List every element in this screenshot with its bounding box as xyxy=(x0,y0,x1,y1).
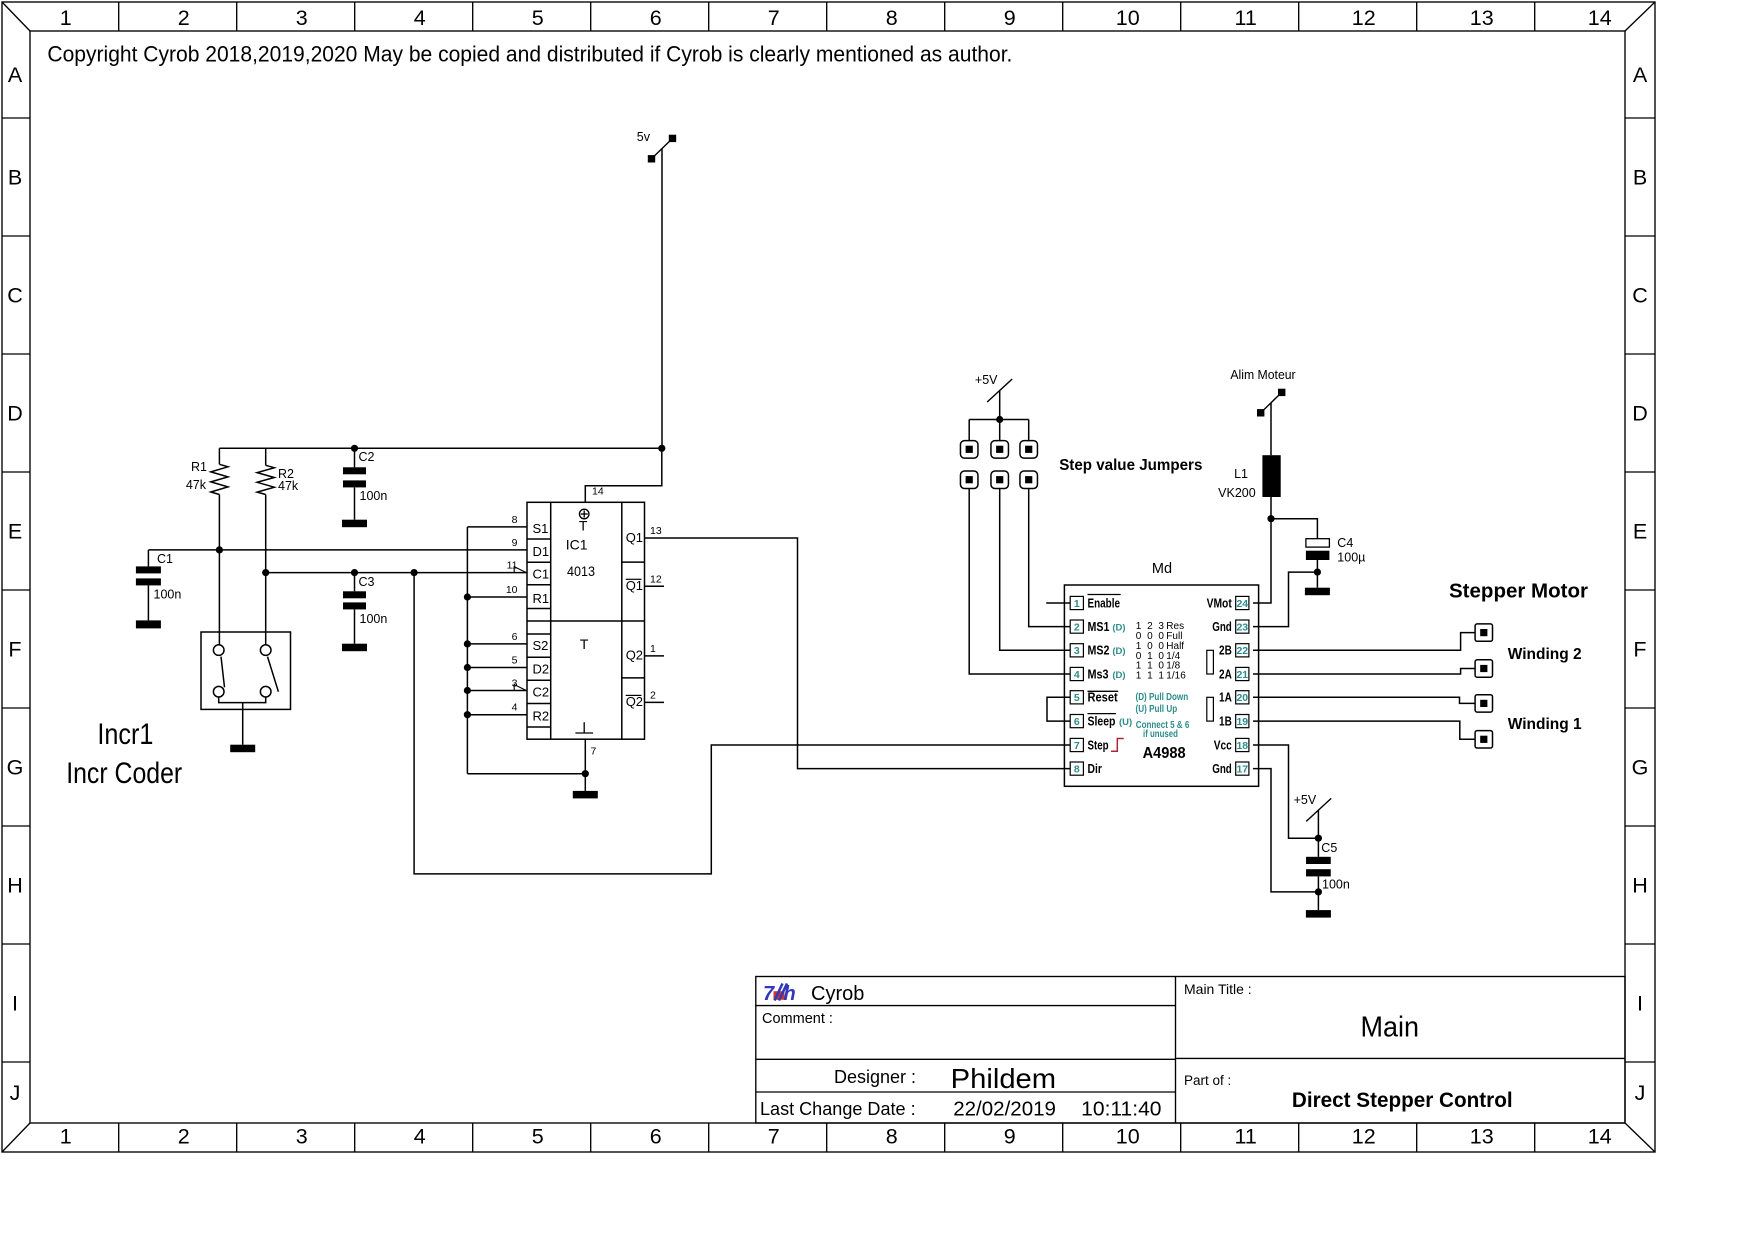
svg-text:C4: C4 xyxy=(1337,536,1353,550)
node C5-gnd junction xyxy=(1315,888,1322,895)
capacitor C4 100u polarized xyxy=(1306,536,1365,588)
A4988 right pin boxes xyxy=(1236,596,1249,775)
svg-text:3: 3 xyxy=(296,6,308,30)
svg-text:4: 4 xyxy=(1074,669,1080,681)
svg-text:5v: 5v xyxy=(637,130,651,144)
svg-text:C1: C1 xyxy=(157,552,173,566)
ground C3 xyxy=(342,644,367,652)
wire Q1 to Dir xyxy=(645,538,1071,769)
svg-text:Md: Md xyxy=(1152,561,1172,577)
svg-text:Incr Coder: Incr Coder xyxy=(66,757,182,790)
svg-text:Winding 2: Winding 2 xyxy=(1508,646,1582,663)
svg-text:Step: Step xyxy=(1088,738,1109,752)
svg-text:Stepper Motor: Stepper Motor xyxy=(1449,581,1588,603)
svg-text:Sleep: Sleep xyxy=(1088,714,1116,728)
svg-text:Incr1: Incr1 xyxy=(97,718,153,751)
wire clock net xyxy=(266,572,527,574)
svg-text:23: 23 xyxy=(1236,621,1248,633)
svg-text:6: 6 xyxy=(650,1125,662,1149)
svg-text:7: 7 xyxy=(1074,740,1080,752)
svg-text:1: 1 xyxy=(1136,670,1142,681)
svg-text:2: 2 xyxy=(178,6,190,30)
wire VMot pin 24 xyxy=(1253,519,1271,603)
svg-text:B: B xyxy=(8,166,22,190)
svg-text:Comment :: Comment : xyxy=(762,1011,833,1027)
svg-text:L1: L1 xyxy=(1234,467,1248,481)
svg-text:Vcc: Vcc xyxy=(1214,738,1232,752)
A4988 pin names xyxy=(1088,595,1233,776)
svg-text:4: 4 xyxy=(512,702,518,714)
winding bracket 1 xyxy=(1207,697,1214,721)
step edge symbol xyxy=(1111,739,1124,752)
svg-text:20: 20 xyxy=(1236,692,1248,704)
svg-text:VMot: VMot xyxy=(1207,596,1233,610)
svg-text:Q2: Q2 xyxy=(626,694,643,709)
svg-text:R2: R2 xyxy=(533,709,550,724)
svg-text:1/16: 1/16 xyxy=(1166,670,1186,681)
wire IC1 pin 12 stub xyxy=(645,585,665,587)
node clk-step branch junction xyxy=(411,569,418,576)
svg-text:11: 11 xyxy=(1235,6,1257,30)
svg-text:I: I xyxy=(1637,992,1643,1016)
svg-text:S2: S2 xyxy=(533,638,549,653)
node vcc-C2 junction xyxy=(351,445,358,452)
capacitor C1 100n xyxy=(136,550,181,621)
svg-text:21: 21 xyxy=(1236,669,1248,681)
motor pad 3 xyxy=(1475,695,1492,712)
svg-text:Reset: Reset xyxy=(1088,691,1119,705)
svg-text:1: 1 xyxy=(60,1125,72,1149)
svg-text:Dir: Dir xyxy=(1088,762,1103,776)
svg-text:24: 24 xyxy=(1236,598,1248,610)
node clk-C3 junction xyxy=(351,569,358,576)
svg-text:Phildem: Phildem xyxy=(951,1063,1056,1094)
wire IC1 pin 2 stub xyxy=(645,701,665,703)
ground C5 xyxy=(1306,910,1331,918)
svg-text:J: J xyxy=(10,1081,21,1105)
svg-text:J: J xyxy=(1635,1081,1646,1105)
wire 1B to pad xyxy=(1253,721,1475,739)
svg-text:2: 2 xyxy=(178,1125,190,1149)
svg-text:7: 7 xyxy=(591,746,597,758)
power flag Alim Moteur xyxy=(1230,368,1295,417)
wire 1A to pad xyxy=(1253,697,1475,703)
svg-text:(U) Pull Up: (U) Pull Up xyxy=(1136,704,1178,715)
svg-text:100n: 100n xyxy=(154,588,182,602)
svg-text:1: 1 xyxy=(650,643,656,655)
svg-text:11: 11 xyxy=(507,560,518,572)
node D1-R1 junction xyxy=(216,546,223,553)
svg-text:5: 5 xyxy=(532,6,544,30)
svg-text:C2: C2 xyxy=(359,450,375,464)
capacitor C2 100n xyxy=(343,448,387,519)
svg-text:Designer :: Designer : xyxy=(834,1067,916,1087)
logo Cyrob xyxy=(763,983,796,1005)
wire 5v vertical xyxy=(661,149,663,449)
wire 2B to pad xyxy=(1253,633,1475,651)
svg-text:(D): (D) xyxy=(1112,622,1125,633)
svg-text:7: 7 xyxy=(768,6,780,30)
clock chevron pin 11 xyxy=(514,567,526,573)
wire +5V to jumpers xyxy=(969,391,1028,441)
jumper pad top 1 xyxy=(960,441,978,459)
svg-text:I: I xyxy=(12,992,18,1016)
svg-text:18: 18 xyxy=(1236,740,1248,752)
svg-text:12: 12 xyxy=(1352,6,1376,30)
svg-text:4: 4 xyxy=(414,1125,426,1149)
wire Enable stub xyxy=(1046,602,1070,604)
svg-text:S1: S1 xyxy=(533,521,549,536)
jumper pad bottom 2 xyxy=(991,471,1009,489)
node +5V junction xyxy=(996,416,1003,423)
wire jumper3 to MS1 xyxy=(1029,489,1070,627)
svg-text:1A: 1A xyxy=(1219,691,1232,705)
svg-text:13: 13 xyxy=(1470,6,1494,30)
svg-text:Main Title :: Main Title : xyxy=(1184,981,1252,997)
motor pad 4 xyxy=(1475,731,1492,748)
svg-text:13: 13 xyxy=(1470,1125,1494,1149)
wire node to C4 xyxy=(1271,519,1317,539)
svg-text:G: G xyxy=(7,756,24,780)
ground C1 xyxy=(136,620,161,628)
resistor R1 47k xyxy=(186,448,228,645)
svg-text:10: 10 xyxy=(1116,1125,1140,1149)
jumper pad bottom 1 xyxy=(960,471,978,489)
svg-text:F: F xyxy=(8,638,21,662)
node vcc-pin14 junction xyxy=(658,445,665,452)
node VMot junction xyxy=(1267,515,1274,522)
svg-text:13: 13 xyxy=(650,525,662,537)
node bus junction xyxy=(464,664,471,671)
svg-text:19: 19 xyxy=(1236,716,1248,728)
svg-text:12: 12 xyxy=(1352,1125,1376,1149)
wire IC1 pin 1 stub xyxy=(645,655,665,657)
svg-text:100n: 100n xyxy=(1322,878,1350,892)
svg-text:Last Change Date :: Last Change Date : xyxy=(760,1099,916,1119)
wire Gnd pin 17 xyxy=(1253,769,1318,892)
power flag +5V C5 xyxy=(1294,793,1332,821)
encoder switch Incr1 xyxy=(201,632,291,745)
svg-text:6: 6 xyxy=(1074,716,1080,728)
svg-text:C: C xyxy=(1632,284,1648,308)
svg-text:9: 9 xyxy=(1004,1125,1016,1149)
svg-text:(U): (U) xyxy=(1119,717,1132,728)
svg-text:D2: D2 xyxy=(533,662,550,677)
wire D1 net xyxy=(148,549,527,551)
svg-text:H: H xyxy=(7,874,23,898)
power flag 5v xyxy=(637,130,676,163)
motor pad 2 xyxy=(1475,660,1492,677)
svg-text:Part of :: Part of : xyxy=(1184,1073,1231,1088)
svg-text:C3: C3 xyxy=(359,575,375,589)
svg-text:8: 8 xyxy=(886,1125,898,1149)
svg-text:MS2: MS2 xyxy=(1088,644,1110,658)
svg-text:E: E xyxy=(1633,520,1647,544)
node Vcc-C5 junction xyxy=(1315,835,1322,842)
IC1 pin numbers xyxy=(506,486,662,758)
svg-text:5: 5 xyxy=(532,1125,544,1149)
A4988 left pin boxes xyxy=(1070,596,1083,775)
wire +5V to C5 xyxy=(1317,810,1319,838)
svg-text:h: h xyxy=(784,983,796,1005)
wire Vcc pin 18 xyxy=(1253,745,1318,838)
svg-text:Direct Stepper Control: Direct Stepper Control xyxy=(1292,1089,1513,1112)
node clk-R2 junction xyxy=(262,569,269,576)
wire Reset-Sleep tie xyxy=(1047,697,1070,721)
svg-text:8: 8 xyxy=(886,6,898,30)
svg-text:A4988: A4988 xyxy=(1143,745,1186,762)
wire 2A to pad xyxy=(1253,669,1475,675)
svg-text:2: 2 xyxy=(1074,621,1080,633)
svg-text:4: 4 xyxy=(414,6,426,30)
svg-text:22/02/2019: 22/02/2019 xyxy=(953,1098,1056,1121)
svg-text:4013: 4013 xyxy=(567,563,595,579)
svg-text:C: C xyxy=(7,284,23,308)
svg-text:10: 10 xyxy=(1116,6,1140,30)
title block xyxy=(756,977,1625,1124)
svg-text:Gnd: Gnd xyxy=(1212,620,1232,634)
svg-text:if unused: if unused xyxy=(1143,729,1178,740)
wire Alim to L1 xyxy=(1270,403,1272,456)
wire L1 to VMot node xyxy=(1270,497,1272,519)
svg-text:C2: C2 xyxy=(533,685,550,700)
svg-text:2B: 2B xyxy=(1219,644,1232,658)
ground C4 xyxy=(1305,588,1330,596)
svg-text:Enable: Enable xyxy=(1088,596,1121,610)
svg-text:1B: 1B xyxy=(1219,714,1232,728)
svg-text:Winding 1: Winding 1 xyxy=(1508,716,1582,733)
winding bracket 2 xyxy=(1207,650,1214,674)
A4988 microstep table xyxy=(1136,621,1186,681)
svg-text:1: 1 xyxy=(1158,670,1164,681)
IC Md A4988 stepper driver xyxy=(1064,561,1258,786)
svg-text:Q1: Q1 xyxy=(626,530,643,545)
svg-text:T: T xyxy=(580,636,589,652)
svg-text:H: H xyxy=(1632,874,1648,898)
svg-text:F: F xyxy=(1633,638,1646,662)
svg-text:(D) Pull Down: (D) Pull Down xyxy=(1136,692,1189,703)
node pin7-bus junction xyxy=(582,770,589,777)
IC1 4013 dual D flip-flop xyxy=(527,502,645,739)
svg-text:6: 6 xyxy=(512,631,518,643)
node C4-gnd junction xyxy=(1314,569,1321,576)
svg-text:11: 11 xyxy=(1235,1125,1257,1149)
svg-text:VK200: VK200 xyxy=(1218,486,1256,500)
svg-text:3: 3 xyxy=(296,1125,308,1149)
svg-text:D: D xyxy=(1632,402,1648,426)
svg-text:100n: 100n xyxy=(360,489,388,503)
svg-text:12: 12 xyxy=(650,573,662,585)
svg-text:A: A xyxy=(1633,63,1648,87)
svg-text:5: 5 xyxy=(512,655,518,667)
node bus junction xyxy=(464,711,471,718)
svg-text:1: 1 xyxy=(60,6,72,30)
svg-text:Copyright Cyrob 2018,2019,2020: Copyright Cyrob 2018,2019,2020 May be co… xyxy=(47,42,1012,67)
svg-text:7: 7 xyxy=(768,1125,780,1149)
svg-text:(D): (D) xyxy=(1112,646,1125,657)
svg-text:Alim Moteur: Alim Moteur xyxy=(1230,368,1295,382)
svg-text:T: T xyxy=(579,518,588,534)
svg-text:1: 1 xyxy=(1074,598,1080,610)
svg-text:100n: 100n xyxy=(360,612,388,626)
svg-text:C5: C5 xyxy=(1321,841,1337,855)
jumper pad bottom 3 xyxy=(1020,471,1037,489)
svg-text:Q2: Q2 xyxy=(626,647,643,662)
svg-text:100µ: 100µ xyxy=(1337,551,1365,565)
wire IC1 ground bus xyxy=(467,527,585,774)
svg-text:E: E xyxy=(8,520,22,544)
svg-text:47k: 47k xyxy=(186,478,207,492)
wire clk to Step pin xyxy=(414,573,1070,874)
motor pad 1 xyxy=(1475,624,1492,641)
svg-text:3: 3 xyxy=(1074,645,1080,657)
svg-text:7: 7 xyxy=(763,983,775,1005)
svg-text:+5V: +5V xyxy=(975,373,998,387)
svg-text:2A: 2A xyxy=(1219,667,1232,681)
ground IC1 pin 7 xyxy=(573,791,598,799)
jumper pad top 2 xyxy=(991,441,1009,459)
wire jumper1 to Ms3 xyxy=(969,489,1070,675)
wire Gnd pin 23 xyxy=(1253,572,1317,627)
svg-text:14: 14 xyxy=(592,486,604,498)
svg-text:10:11:40: 10:11:40 xyxy=(1081,1098,1161,1121)
svg-text:MS1: MS1 xyxy=(1088,620,1110,634)
svg-text:Ms3: Ms3 xyxy=(1088,667,1109,681)
svg-text:22: 22 xyxy=(1236,645,1248,657)
clock chevron pin 3 xyxy=(514,685,526,691)
svg-text:IC1: IC1 xyxy=(566,536,588,552)
svg-text:Step value Jumpers: Step value Jumpers xyxy=(1059,457,1202,474)
svg-text:G: G xyxy=(1632,756,1649,780)
svg-text:47k: 47k xyxy=(278,479,299,493)
jumper pad top 3 xyxy=(1020,441,1037,459)
svg-text:9: 9 xyxy=(1004,6,1016,30)
svg-text:D1: D1 xyxy=(533,544,550,559)
svg-text:6: 6 xyxy=(650,6,662,30)
wire vcc horizontal xyxy=(219,447,661,449)
svg-text:8: 8 xyxy=(1074,763,1080,775)
svg-text:17: 17 xyxy=(1236,763,1248,775)
A4988 teal notes xyxy=(1136,692,1190,740)
inductor L1 VK200 xyxy=(1218,455,1281,500)
capacitor C5 100n xyxy=(1306,838,1350,910)
svg-text:Main: Main xyxy=(1361,1011,1420,1043)
node bus junction xyxy=(464,687,471,694)
svg-text:14: 14 xyxy=(1588,1125,1612,1149)
wire jumper2 to MS2 xyxy=(1000,489,1070,651)
svg-text:1: 1 xyxy=(1147,670,1153,681)
svg-text:R1: R1 xyxy=(191,460,207,474)
power flag +5V jumpers xyxy=(975,373,1012,402)
svg-text:10: 10 xyxy=(506,584,518,596)
svg-text:R1: R1 xyxy=(533,591,550,606)
svg-text:Gnd: Gnd xyxy=(1212,762,1232,776)
node bus junction xyxy=(464,640,471,647)
ground C2 xyxy=(342,520,367,528)
ground Incr1 xyxy=(230,745,255,753)
svg-text:B: B xyxy=(1633,166,1647,190)
svg-text:D: D xyxy=(7,402,23,426)
svg-text:14: 14 xyxy=(1588,6,1612,30)
node bus junction xyxy=(464,593,471,600)
svg-text:9: 9 xyxy=(512,537,518,549)
svg-text:Cyrob: Cyrob xyxy=(811,983,864,1005)
svg-text:8: 8 xyxy=(512,514,518,526)
svg-text:(D): (D) xyxy=(1112,670,1125,681)
svg-text:5: 5 xyxy=(1074,692,1080,704)
svg-text:Q1: Q1 xyxy=(626,578,643,593)
wire IC1 pin 14 route xyxy=(585,448,662,502)
wire IC1 pin 7 xyxy=(584,739,586,791)
svg-text:2: 2 xyxy=(650,689,656,701)
capacitor C3 100n xyxy=(343,573,387,644)
svg-text:A: A xyxy=(8,63,23,87)
resistor R2 47k xyxy=(257,448,299,645)
svg-text:C1: C1 xyxy=(533,567,550,582)
svg-text:+5V: +5V xyxy=(1294,793,1317,807)
